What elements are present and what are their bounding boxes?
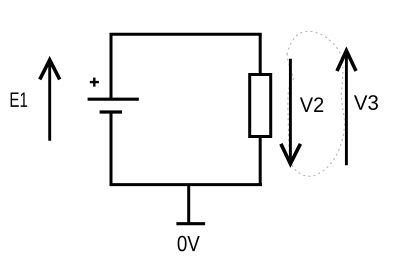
highlight loop (dotted) xyxy=(287,31,345,176)
wire right upper xyxy=(259,33,262,74)
battery E1 negative plate xyxy=(100,110,122,113)
wire left lower xyxy=(110,112,113,186)
label E1 xyxy=(11,92,28,106)
wire right lower xyxy=(259,137,262,187)
arrow E1 (emf direction, up) xyxy=(40,60,60,141)
label V3 xyxy=(354,95,378,110)
wire bottom xyxy=(110,183,262,186)
wire top xyxy=(110,33,262,36)
arrow V3 (voltage, up) xyxy=(337,51,356,166)
wire left upper (battery + terminal) xyxy=(110,33,113,99)
arrow V2 (voltage, down) xyxy=(281,59,301,164)
resistor xyxy=(250,75,271,137)
battery E1 positive plate xyxy=(88,98,139,101)
battery polarity + xyxy=(90,78,99,87)
node 0V label xyxy=(178,236,200,252)
ground stub wire xyxy=(187,185,190,224)
label V2 xyxy=(300,97,323,112)
ground bar xyxy=(176,222,205,225)
